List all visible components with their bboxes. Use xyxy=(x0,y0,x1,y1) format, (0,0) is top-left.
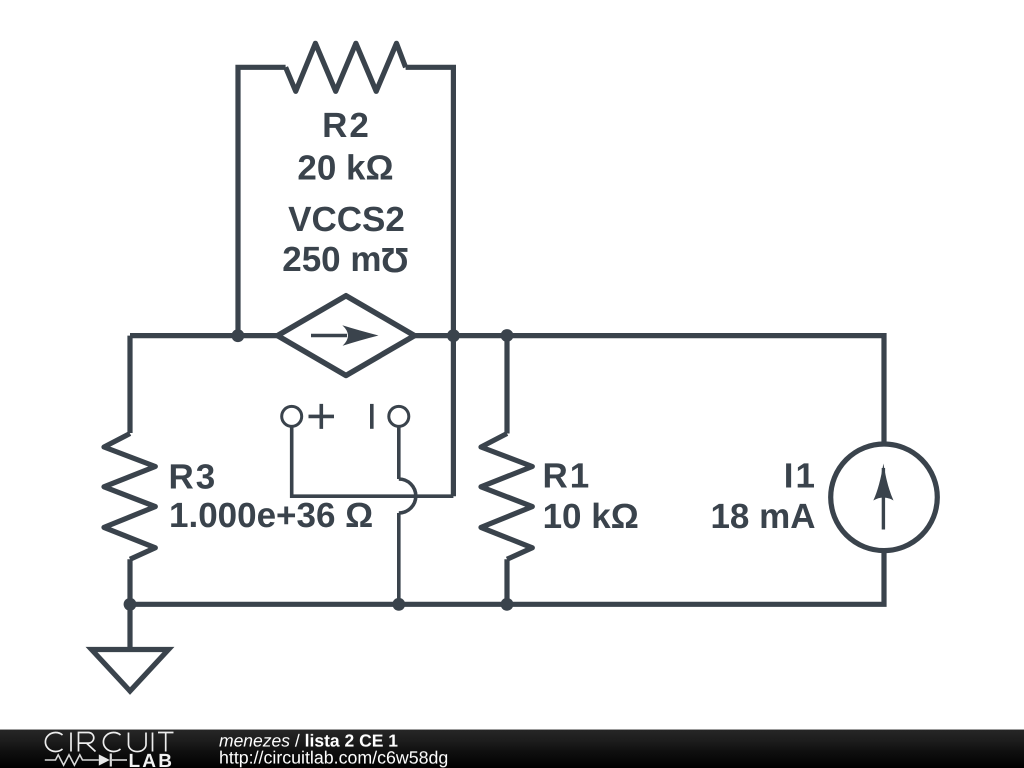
label R3 xyxy=(169,458,218,497)
control terminal + (circle) xyxy=(282,406,302,426)
wire: R2 left loop (node A to R2 left terminal) xyxy=(238,67,286,335)
value 1.000e+36 Ohm xyxy=(169,496,373,535)
minus sign (rotated) xyxy=(370,404,374,429)
label VCCS2 xyxy=(288,200,405,239)
value 20 kOhm xyxy=(297,149,393,188)
value 18 mA xyxy=(710,497,815,536)
wire: control - lead lower to ground rail xyxy=(397,513,401,604)
wire: R1 top lead xyxy=(504,336,509,434)
junction dot node A (238,334) xyxy=(232,329,245,342)
vccs VCCS2 diamond body xyxy=(278,296,415,376)
junction dot ground rail mid (399,604) xyxy=(392,598,405,611)
wire: top rail left (node A to VCCS2 left pin) xyxy=(130,333,279,338)
circuitlab logo wordmark LAB xyxy=(128,751,174,768)
wire: control + lead xyxy=(292,426,454,496)
junction dot ground rail R1 (507,604) xyxy=(501,598,514,611)
value 10 kOhm xyxy=(543,497,639,536)
plus sign xyxy=(309,404,335,429)
junction dot ground rail left (130,604) xyxy=(124,598,137,611)
current source I1 circle xyxy=(831,444,938,551)
footer title text xyxy=(219,730,448,767)
wire: bottom ground rail xyxy=(130,551,884,604)
wire: control - lead upper xyxy=(397,426,401,479)
value 250 mMho xyxy=(282,240,409,279)
svg-text:LAB: LAB xyxy=(128,751,174,768)
junction dot node B (453,334) xyxy=(447,329,460,342)
ground symbol xyxy=(92,650,169,692)
resistor R3 xyxy=(104,434,155,560)
circuitlab logo mini schematic (resistor and diode) xyxy=(45,754,127,767)
wire hop over control + lead xyxy=(399,479,416,513)
wire: R3 bottom to ground xyxy=(127,559,132,649)
control terminal - (circle) xyxy=(389,406,409,426)
label I1 xyxy=(784,457,817,496)
circuitlab logo wordmark CIRCUIT xyxy=(45,733,173,752)
current source I1 arrow xyxy=(873,464,893,530)
wire: left branch down to R3 xyxy=(127,336,132,433)
vccs VCCS2 arrow xyxy=(311,325,379,346)
wire: top rail right (VCCS2 right pin to I1 top) xyxy=(413,336,884,444)
junction dot node B2 (507,334) xyxy=(501,329,514,342)
svg-text:http://circuitlab.com/c6w58dg: http://circuitlab.com/c6w58dg xyxy=(219,747,448,767)
label R2 xyxy=(322,106,371,145)
resistor R1 xyxy=(481,434,532,560)
label R1 xyxy=(543,457,592,496)
resistor R2 xyxy=(286,43,406,91)
wire: R1 bottom lead xyxy=(504,559,509,604)
wire: R2 right terminal down to control net xyxy=(406,67,454,496)
footer bar xyxy=(0,729,1024,768)
